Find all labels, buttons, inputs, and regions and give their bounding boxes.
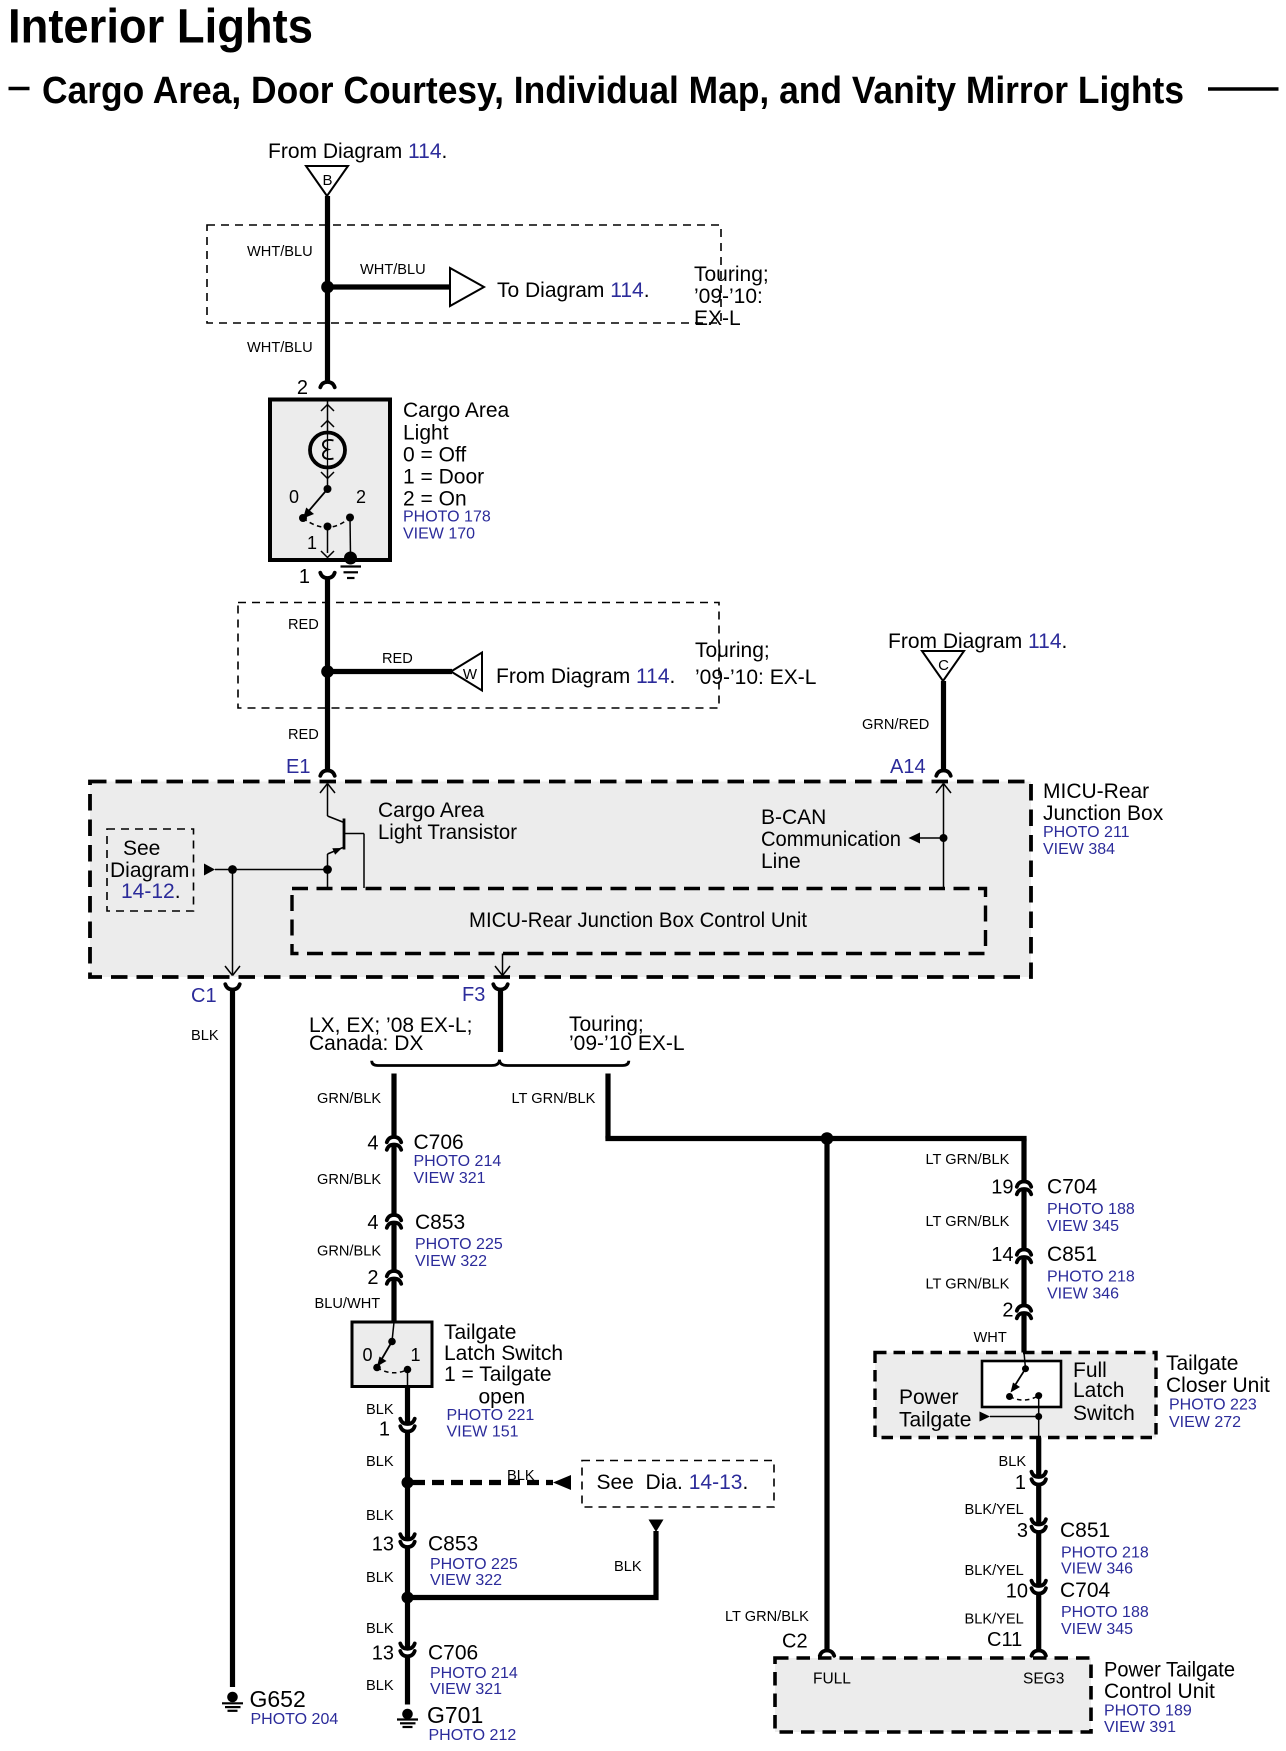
- svg-text:GRN/BLK: GRN/BLK: [317, 1244, 381, 1260]
- contact arc (dashed): [303, 518, 350, 528]
- svg-text:PHOTO 218: PHOTO 218: [1047, 1269, 1135, 1286]
- contact arc (dashed): [377, 1368, 408, 1373]
- svg-text:Switch: Switch: [1073, 1402, 1135, 1425]
- svg-text:Touring;: Touring;: [695, 639, 770, 662]
- terminal symbol C11: [1032, 1651, 1046, 1656]
- wire (BLK/YEL): [1036, 1593, 1041, 1650]
- switch lead out: [1038, 1396, 1040, 1438]
- switch lead in: [1024, 1353, 1026, 1369]
- B-CAN stub wire: [920, 837, 944, 839]
- contact 1: [324, 523, 332, 531]
- wire junction to C1: [232, 870, 234, 976]
- contact 1: [404, 1366, 412, 1374]
- svg-text:VIEW 321: VIEW 321: [430, 1681, 502, 1698]
- terminal symbol C1: [225, 984, 239, 989]
- svg-text:LT GRN/BLK: LT GRN/BLK: [926, 1214, 1010, 1230]
- switch arm: [380, 1342, 392, 1363]
- svg-text:BLK/YEL: BLK/YEL: [965, 1563, 1024, 1579]
- svg-text:A14: A14: [890, 756, 926, 778]
- lead from contact 1 to pin 1: [327, 527, 329, 554]
- svg-text:1: 1: [1015, 1472, 1026, 1494]
- A14 internal wire: [943, 784, 945, 889]
- contact 0: [1006, 1393, 1013, 1400]
- svg-text:4: 4: [367, 1133, 378, 1155]
- svg-text:LT GRN/BLK: LT GRN/BLK: [926, 1152, 1010, 1168]
- terminal symbol E1: [320, 771, 334, 776]
- svg-text:Cargo Area: Cargo Area: [403, 399, 510, 422]
- terminal symbol pin 2: [320, 382, 334, 387]
- svg-text:VIEW 346: VIEW 346: [1061, 1561, 1133, 1578]
- internal lead with terminal ticks: [327, 401, 329, 432]
- svg-text:Latch: Latch: [1073, 1379, 1124, 1402]
- power tailgate signal arrow: [980, 1412, 991, 1422]
- svg-text:C1: C1: [191, 985, 217, 1007]
- svg-text:PHOTO 188: PHOTO 188: [1047, 1201, 1135, 1218]
- wire C1 to G652 (BLK): [230, 990, 235, 1688]
- svg-text:To Diagram 114.: To Diagram 114.: [497, 279, 650, 302]
- contact arc (dashed): [1010, 1396, 1039, 1400]
- svg-text:LT GRN/BLK: LT GRN/BLK: [926, 1277, 1010, 1293]
- svg-text:From Diagram 114.: From Diagram 114.: [268, 140, 447, 163]
- node on A14 line: [940, 834, 948, 842]
- svg-text:BLK: BLK: [507, 1468, 535, 1484]
- wire C to A14 (GRN/RED): [941, 681, 946, 770]
- svg-text:2 = On: 2 = On: [403, 488, 467, 511]
- wire pin1 to E1 (RED): [325, 578, 330, 770]
- svg-text:See: See: [123, 837, 160, 860]
- MICU-Rear Junction Box Control Unit inner box: [292, 889, 986, 954]
- svg-text:PHOTO 189: PHOTO 189: [1104, 1703, 1192, 1720]
- svg-text:PHOTO 225: PHOTO 225: [415, 1236, 503, 1253]
- svg-text:Control Unit: Control Unit: [1104, 1680, 1215, 1703]
- wire to From-Diagram arrow W: [328, 669, 453, 674]
- junction node to See Dia 14-13: [402, 1477, 414, 1489]
- dashed variant box (Touring 09-10 EX-L) middle: [238, 603, 719, 709]
- svg-text:WHT/BLU: WHT/BLU: [247, 244, 313, 260]
- svg-text:14: 14: [991, 1244, 1013, 1266]
- bulb symbol: [310, 433, 345, 468]
- svg-text:Junction Box: Junction Box: [1043, 802, 1164, 825]
- MICU-Rear Junction Box outline: [90, 782, 1031, 978]
- svg-text:B-CAN: B-CAN: [761, 806, 826, 829]
- wire down right (LT GRN/BLK): [1021, 1139, 1026, 1182]
- arrow from See Diagram box: [204, 864, 215, 876]
- svg-text:Tailgate: Tailgate: [1166, 1352, 1238, 1375]
- svg-text:PHOTO 204: PHOTO 204: [251, 1711, 339, 1728]
- svg-text:MICU-Rear: MICU-Rear: [1043, 780, 1149, 803]
- switch common node: [324, 485, 332, 493]
- arrow down from See Dia box: [649, 1520, 664, 1533]
- wire (GRN/BLK): [391, 1223, 396, 1272]
- svg-text:VIEW 346: VIEW 346: [1047, 1286, 1119, 1303]
- svg-text:GRN/BLK: GRN/BLK: [317, 1091, 381, 1107]
- wire from See Dia to junction (BLK): [653, 1531, 658, 1595]
- svg-text:G701: G701: [427, 1702, 483, 1728]
- svg-text:BLK: BLK: [366, 1402, 394, 1418]
- case ground node: [344, 552, 357, 565]
- svg-text:Line: Line: [761, 850, 801, 873]
- svg-text:Power Tailgate: Power Tailgate: [1104, 1659, 1235, 1682]
- svg-text:C851: C851: [1047, 1243, 1097, 1266]
- svg-text:BLK: BLK: [366, 1570, 394, 1586]
- svg-text:VIEW 322: VIEW 322: [415, 1253, 487, 1270]
- See Dia 14-13 dashed box: [582, 1461, 774, 1508]
- svg-text:See Dia. 14-13.: See Dia. 14-13.: [597, 1471, 749, 1494]
- svg-text:Closer Unit: Closer Unit: [1166, 1374, 1270, 1397]
- svg-text:C11: C11: [987, 1629, 1022, 1651]
- svg-text:SEG3: SEG3: [1023, 1671, 1064, 1688]
- svg-text:Interior Lights: Interior Lights: [8, 1, 313, 54]
- A14 entry arrow: [936, 784, 944, 794]
- svg-text:BLU/WHT: BLU/WHT: [315, 1296, 381, 1312]
- svg-text:VIEW 391: VIEW 391: [1104, 1719, 1176, 1736]
- svg-text:WHT/BLU: WHT/BLU: [360, 262, 426, 278]
- subtitle rule left: [9, 87, 30, 91]
- svg-text:0: 0: [362, 1345, 372, 1365]
- svg-text:1: 1: [410, 1345, 420, 1365]
- base junction node: [323, 865, 332, 874]
- See Diagram 14-12 dashed box: [107, 829, 194, 911]
- full latch switch inner box: [982, 1361, 1061, 1407]
- svg-text:C853: C853: [428, 1533, 478, 1556]
- svg-text:Tailgate: Tailgate: [444, 1321, 516, 1344]
- svg-text:2: 2: [356, 487, 366, 507]
- svg-text:Power: Power: [899, 1386, 959, 1409]
- junction node on RED wire: [321, 665, 334, 678]
- switch common contact: [1022, 1365, 1029, 1372]
- wire (BLU/WHT): [391, 1279, 396, 1322]
- bulb filament: [323, 440, 334, 459]
- svg-text:VIEW 384: VIEW 384: [1043, 841, 1115, 858]
- svg-text:Tailgate: Tailgate: [899, 1409, 971, 1432]
- svg-text:FULL: FULL: [813, 1671, 851, 1688]
- junction node on WHT/BLU wire: [321, 281, 334, 294]
- svg-text:Light Transistor: Light Transistor: [378, 821, 517, 844]
- wire below latch switch (BLK): [405, 1387, 410, 1425]
- svg-text:RED: RED: [288, 617, 319, 633]
- transistor Q1 lead from E1: [327, 784, 329, 817]
- svg-text:14-12.: 14-12.: [121, 880, 181, 903]
- svg-text:C853: C853: [415, 1211, 465, 1234]
- svg-text:C704: C704: [1060, 1579, 1111, 1602]
- svg-text:PHOTO 218: PHOTO 218: [1061, 1545, 1149, 1562]
- lead from contact 2 to case ground: [349, 518, 352, 557]
- transistor Q1 (cargo area light transistor): [328, 816, 345, 823]
- svg-text:13: 13: [372, 1534, 394, 1556]
- svg-text:1: 1: [379, 1419, 390, 1441]
- svg-text:BLK: BLK: [999, 1454, 1027, 1470]
- svg-text:W: W: [463, 666, 478, 683]
- svg-text:open: open: [479, 1386, 526, 1409]
- svg-text:1: 1: [307, 533, 317, 553]
- svg-text:PHOTO 178: PHOTO 178: [403, 509, 491, 526]
- wire (BLK/YEL): [1036, 1532, 1041, 1586]
- svg-text:1 = Door: 1 = Door: [403, 466, 484, 489]
- svg-text:VIEW 345: VIEW 345: [1061, 1621, 1133, 1638]
- svg-text:PHOTO 212: PHOTO 212: [429, 1727, 517, 1744]
- svg-text:Latch Switch: Latch Switch: [444, 1342, 563, 1365]
- svg-text:VIEW 151: VIEW 151: [447, 1424, 519, 1441]
- wire to G701 (BLK): [405, 1656, 410, 1704]
- svg-text:VIEW 170: VIEW 170: [403, 526, 475, 543]
- svg-text:10: 10: [1006, 1581, 1028, 1603]
- svg-text:BLK: BLK: [614, 1559, 642, 1575]
- connector triangle C: [922, 651, 964, 681]
- wire (BLK): [405, 1431, 410, 1539]
- component box: Cargo Area Light: [270, 400, 390, 561]
- svg-text:G652: G652: [250, 1686, 306, 1712]
- wire F3 to split: [498, 990, 503, 1053]
- svg-text:Canada: DX: Canada: DX: [309, 1032, 423, 1055]
- svg-text:GRN/RED: GRN/RED: [862, 717, 929, 733]
- C1 exit arrow: [225, 966, 233, 976]
- switch arm to position 0: [307, 489, 328, 513]
- ground G701: [402, 1709, 413, 1720]
- switch lead in: [392, 1322, 394, 1342]
- wire to To-Diagram arrow: [328, 284, 451, 289]
- svg-text:0 = Off: 0 = Off: [403, 444, 466, 467]
- svg-text:0: 0: [289, 487, 299, 507]
- svg-text:2: 2: [1002, 1300, 1013, 1322]
- wire (LT GRN/BLK): [1021, 1189, 1026, 1250]
- svg-text:PHOTO 214: PHOTO 214: [430, 1665, 518, 1682]
- svg-text:RED: RED: [288, 727, 319, 743]
- off-page arrow To Diagram 114: [450, 268, 484, 306]
- off-page arrow W From Diagram 114: [451, 653, 482, 691]
- svg-text:EX-L: EX-L: [694, 307, 741, 330]
- svg-text:’09-’10:: ’09-’10:: [694, 285, 763, 308]
- connector triangle B: [306, 166, 348, 196]
- svg-text:C706: C706: [414, 1131, 464, 1154]
- svg-text:LT GRN/BLK: LT GRN/BLK: [512, 1091, 596, 1107]
- svg-text:PHOTO 225: PHOTO 225: [430, 1556, 518, 1573]
- wire down to C2 (LT GRN/BLK): [824, 1139, 829, 1651]
- svg-text:BLK: BLK: [366, 1508, 394, 1524]
- svg-text:1 = Tailgate: 1 = Tailgate: [444, 1363, 552, 1386]
- switch arm: [1013, 1369, 1026, 1389]
- B-CAN arrow: [909, 833, 921, 844]
- split brace: [372, 1060, 629, 1066]
- component box: Power Tailgate Control Unit: [775, 1658, 1091, 1732]
- junction node to C1: [228, 865, 237, 874]
- F3 internal wire and arrow: [502, 954, 504, 976]
- wire to transistor base: [215, 869, 328, 871]
- wire (BLK/YEL): [1036, 1484, 1041, 1524]
- wire (WHT): [1021, 1313, 1026, 1352]
- wire below closer unit (BLK): [1036, 1438, 1041, 1478]
- component box: Tailgate Closer Unit: [875, 1353, 1156, 1438]
- dashed variant box (Touring 09-10 EX-L) top: [207, 225, 721, 323]
- svg-text:19: 19: [991, 1177, 1013, 1199]
- junction node: [402, 1592, 414, 1604]
- wire (GRN/BLK): [391, 1145, 396, 1216]
- switch lead out: [407, 1370, 409, 1387]
- contact 0: [373, 1364, 381, 1372]
- svg-text:F3: F3: [462, 984, 485, 1006]
- svg-text:RED: RED: [382, 651, 413, 667]
- junction node to C2: [821, 1132, 834, 1145]
- svg-text:’09-’10: EX-L: ’09-’10: EX-L: [695, 666, 816, 689]
- svg-text:MICU-Rear Junction Box Control: MICU-Rear Junction Box Control Unit: [469, 909, 807, 932]
- svg-text:Cargo Area, Door Courtesy, Ind: Cargo Area, Door Courtesy, Individual Ma…: [42, 70, 1184, 112]
- svg-text:C706: C706: [428, 1642, 478, 1665]
- wire (BLK): [405, 1547, 410, 1649]
- svg-text:LT GRN/BLK: LT GRN/BLK: [725, 1609, 809, 1625]
- svg-text:Cargo Area: Cargo Area: [378, 799, 485, 822]
- wire (LT GRN/BLK): [1021, 1257, 1026, 1306]
- svg-text:Touring;: Touring;: [694, 263, 769, 286]
- svg-text:From Diagram 114.: From Diagram 114.: [888, 630, 1067, 653]
- svg-text:BLK: BLK: [191, 1028, 219, 1044]
- svg-text:3: 3: [1017, 1520, 1028, 1542]
- ground G652: [227, 1692, 238, 1703]
- terminal symbol A14: [936, 771, 950, 776]
- subtitle rule right: [1208, 87, 1279, 91]
- component box: Tailgate Latch Switch: [352, 1322, 432, 1387]
- case ground symbol: [341, 565, 362, 567]
- svg-text:Light: Light: [403, 422, 449, 445]
- svg-text:BLK: BLK: [366, 1678, 394, 1694]
- svg-text:13: 13: [372, 1643, 394, 1665]
- terminal symbol C2: [820, 1651, 834, 1656]
- svg-text:VIEW 321: VIEW 321: [414, 1170, 486, 1187]
- svg-text:PHOTO 214: PHOTO 214: [414, 1153, 502, 1170]
- svg-text:VIEW 322: VIEW 322: [430, 1572, 502, 1589]
- svg-text:4: 4: [367, 1212, 378, 1234]
- contact 1: [1035, 1392, 1042, 1399]
- svg-text:C2: C2: [782, 1631, 808, 1653]
- svg-text:WHT: WHT: [974, 1330, 1007, 1346]
- svg-text:PHOTO 223: PHOTO 223: [1169, 1397, 1257, 1414]
- svg-text:1: 1: [299, 566, 310, 588]
- svg-text:PHOTO 188: PHOTO 188: [1061, 1604, 1149, 1621]
- arrow into See Dia box: [553, 1475, 571, 1490]
- svg-text:GRN/BLK: GRN/BLK: [317, 1172, 381, 1188]
- svg-text:From Diagram 114.: From Diagram 114.: [496, 665, 675, 688]
- svg-text:PHOTO 211: PHOTO 211: [1043, 824, 1130, 841]
- svg-text:Diagram: Diagram: [110, 859, 189, 882]
- dashed wire to See Dia (BLK): [413, 1480, 553, 1485]
- svg-text:2: 2: [297, 377, 308, 399]
- svg-text:B: B: [322, 172, 332, 189]
- svg-text:PHOTO 221: PHOTO 221: [447, 1407, 535, 1424]
- wire left branch (GRN/BLK): [391, 1074, 396, 1138]
- contact 0: [299, 514, 307, 522]
- terminal symbol F3: [493, 984, 507, 989]
- svg-text:C704: C704: [1047, 1176, 1098, 1199]
- svg-text:Communication: Communication: [761, 828, 901, 851]
- svg-text:BLK/YEL: BLK/YEL: [965, 1502, 1024, 1518]
- svg-text:BLK/YEL: BLK/YEL: [965, 1612, 1024, 1628]
- svg-text:VIEW 345: VIEW 345: [1047, 1218, 1119, 1235]
- svg-text:C: C: [938, 657, 949, 674]
- svg-text:WHT/BLU: WHT/BLU: [247, 340, 313, 356]
- svg-text:VIEW 272: VIEW 272: [1169, 1414, 1241, 1431]
- svg-text:E1: E1: [286, 756, 310, 778]
- wire B to cargo area light (WHT/BLU): [325, 196, 330, 382]
- svg-text:C851: C851: [1060, 1519, 1110, 1542]
- E1 entry arrow: [320, 784, 328, 794]
- svg-text:2: 2: [367, 1267, 378, 1289]
- wire right branch (LT GRN/BLK): [605, 1074, 610, 1139]
- lead below bulb: [327, 467, 329, 489]
- svg-text:’09-’10 EX-L: ’09-’10 EX-L: [569, 1032, 685, 1055]
- contact 2: [346, 514, 354, 522]
- svg-text:BLK: BLK: [366, 1454, 394, 1470]
- terminal symbol pin 1: [320, 573, 334, 578]
- svg-text:BLK: BLK: [366, 1621, 394, 1637]
- switch common contact: [388, 1338, 396, 1346]
